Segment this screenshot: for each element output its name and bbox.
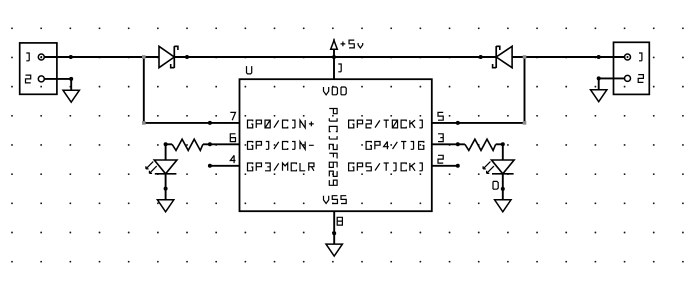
pin number 1 (VDD) (338, 64, 341, 72)
LED D (483, 160, 514, 174)
pin number 4 (230, 155, 235, 163)
label GP0/CIN+ (pin 7) (248, 120, 314, 128)
resistor R2 (465, 139, 496, 150)
wire +5v to VDD (pin 1) (333, 57, 335, 79)
junction +5v tap (332, 55, 336, 59)
tee marker on +5v rail (left) (142, 55, 146, 59)
wire left rail down to GP0 (pin 7) (144, 57, 240, 123)
ground right connector (591, 90, 607, 102)
label +5v (341, 40, 363, 48)
pin number 6 (230, 134, 235, 142)
label 1 (J2 pin 1) (639, 53, 642, 61)
tee marker on rail (right) (523, 55, 527, 59)
resistor R1 (172, 139, 203, 150)
junction resistor R1 right (208, 142, 212, 146)
LED LED1 (146, 160, 177, 174)
wire LED1 cathode to ground (165, 174, 167, 200)
label VDD (324, 87, 347, 95)
diode D2 (schottky) (493, 46, 512, 68)
connector J1 pin 1 circle (38, 54, 44, 60)
label 1 (J1 pin 1) (26, 53, 29, 61)
pin number 8 (VSS) (337, 217, 342, 225)
ground VSS (326, 244, 342, 256)
wire GP5 (pin 2) stub (432, 165, 458, 167)
junction on VSS wire (332, 231, 336, 235)
junction left of D2 (479, 55, 483, 59)
label 2 (J1 pin 2) (26, 75, 31, 83)
ground LED1 (157, 200, 173, 212)
wire pin3 (432, 143, 503, 145)
wire R2 to LED D anode (502, 144, 504, 160)
label GP4/T1G (pin 3) (366, 142, 424, 150)
junction pin2 end (456, 164, 460, 168)
connector J1 pin 2 circle (38, 76, 44, 82)
label 2 (J2 pin 2) (638, 75, 643, 83)
pin number 2 (438, 155, 443, 163)
junction right of D1 (185, 55, 189, 59)
connector J1 (left) (20, 43, 57, 94)
pin number 3 (438, 134, 443, 142)
pin number 5 (438, 112, 443, 120)
wire LED D cathode to ground (502, 174, 504, 200)
junction on pin5 wire (456, 121, 460, 125)
wire GP3/MCLR (pin 4) stub (210, 165, 240, 167)
corner marker right rail/pin5 (523, 121, 527, 125)
label D (493, 181, 498, 189)
label GP3/MCLR (pin 4) (248, 163, 314, 171)
pin number 7 (230, 112, 235, 120)
label GP1/CIN- (pin 6) (248, 142, 314, 150)
junction J1.2 (69, 77, 73, 81)
wire J2.2 to ground (599, 78, 625, 89)
label GP5/T1CKI (pin 2) (349, 163, 423, 171)
label VSS (324, 196, 347, 204)
wire D1 cathode to +5v rail (174, 56, 496, 58)
label U (247, 66, 252, 74)
junction below LED1 (164, 187, 168, 191)
junction pin4 end (208, 164, 212, 168)
junction J2.2 (597, 76, 601, 80)
wire J1.1 to diode D1 anode (44, 56, 159, 58)
wire R1 to LED1 anode (165, 144, 167, 160)
ground LED D (495, 200, 511, 212)
ground left connector (63, 90, 79, 102)
value PIC12F629 (vertical) (329, 109, 337, 186)
connector J2 (right) (614, 42, 650, 94)
connector J2 pin 2 circle (625, 75, 631, 81)
wire VSS (pin 8) to ground (333, 211, 335, 244)
label GP2/T0CKI (pin 5) (349, 120, 423, 128)
wire pin6 stub (166, 143, 240, 145)
wire D2 to connector J2 (512, 56, 624, 58)
diode D1 (schottky) (159, 46, 178, 68)
IC U PIC12F629 box (240, 79, 432, 211)
junction resistor R1 left (164, 142, 168, 146)
corner marker left rail/pin7 (142, 121, 146, 125)
junction on J1.1 wire (69, 55, 73, 59)
wire right rail down to GP2 (pin 5) (432, 57, 525, 123)
connector J2 pin 1 circle (625, 54, 631, 60)
wire J1.2 to ground (44, 79, 71, 90)
junction pin3 (456, 142, 460, 146)
junction on pin7 wire (208, 121, 212, 125)
junction below LED D (501, 187, 505, 191)
+5v supply symbol (331, 39, 338, 57)
junction resistor R2 right (501, 142, 505, 146)
junction on J2.1 wire (597, 55, 601, 59)
